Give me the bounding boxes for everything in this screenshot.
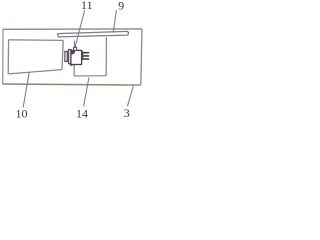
leader line 3: [127, 85, 133, 106]
top plate 9: [58, 31, 129, 37]
leader line 14: [84, 77, 89, 106]
outer housing 3 : bottom edge: [3, 84, 141, 85]
box 14 : left edge: [73, 41, 75, 76]
motor 11 : foot: [70, 65, 72, 67]
motor 11 : body: [71, 50, 82, 64]
svg-text:9: 9: [118, 0, 124, 12]
box 10 : top edge: [9, 39, 64, 42]
box 10 : bottom edge: [8, 70, 62, 74]
outer housing 3 : left edge: [2, 29, 4, 84]
outer housing 3 : right edge: [141, 29, 142, 85]
leader line 11: [74, 10, 84, 50]
motor 11 : prong 2: [83, 55, 89, 57]
box 10 : left edge: [7, 40, 9, 74]
leader line 10: [23, 72, 29, 107]
motor 11 : front cap: [69, 50, 71, 64]
box 14 : right edge: [105, 37, 107, 75]
motor 11 : top tab: [74, 47, 77, 50]
svg-text:11: 11: [81, 0, 93, 12]
outer housing 3 : top edge: [3, 28, 142, 30]
svg-text:10: 10: [16, 106, 28, 120]
svg-text:3: 3: [124, 106, 130, 120]
box 10 : right edge: [62, 40, 63, 69]
motor 11 : terminal strip: [82, 51, 84, 60]
motor 11 : prong 1: [83, 52, 89, 54]
motor 11 : dark corner blob: [71, 51, 75, 55]
leader line 9: [113, 10, 116, 33]
motor 11 : flange plate: [65, 51, 67, 61]
box 14 : bottom edge: [74, 75, 106, 77]
svg-text:14: 14: [76, 107, 88, 121]
motor 11 : prong 3: [83, 58, 89, 60]
